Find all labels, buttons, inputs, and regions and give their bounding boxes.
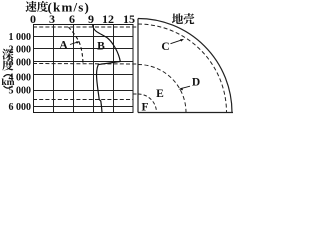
title char 速 (26, 1, 37, 12)
svg-text:A: A (59, 40, 68, 52)
svg-text:D: D (192, 77, 200, 89)
label char 地 (172, 13, 183, 24)
quarter circle left edge (137, 19, 139, 113)
dashed arc moho (138, 24, 227, 113)
curve B (P-wave, solid) (93, 24, 121, 113)
svg-text:9: 9 (88, 12, 94, 26)
label A arrow (70, 42, 78, 45)
chart frame (34, 25, 134, 113)
svg-text:F: F (141, 102, 148, 114)
dashed moho line (33, 26, 138, 28)
horizontal gridline 5000 (33, 90, 133, 92)
vertical gridline 6 (73, 25, 75, 113)
outer solid arc (surface) (138, 19, 232, 113)
label C arrow (171, 40, 183, 44)
dashed arc core-mantle D (138, 65, 186, 113)
y-axis paren close (4, 86, 13, 88)
svg-text:C: C (161, 41, 169, 53)
y-axis char 度 (2, 59, 13, 70)
svg-text:E: E (156, 88, 164, 100)
y-axis paren open (4, 75, 13, 77)
horizontal gridline 2000 (33, 48, 133, 50)
label D arrow (181, 86, 191, 89)
vertical gridline 3 (53, 25, 55, 113)
curve A (S-wave, dashed) (69, 27, 84, 64)
horizontal gridline 4000 (33, 74, 133, 76)
label char 壳 (184, 13, 195, 24)
vertical gridline 9 (93, 25, 95, 113)
quarter circle bottom edge (138, 112, 233, 114)
svg-text:0: 0 (30, 12, 36, 26)
svg-text:B: B (97, 41, 105, 53)
dashed core-mantle line (33, 63, 138, 66)
connector dash inner-core (134, 93, 140, 95)
svg-text:6 000: 6 000 (9, 102, 32, 113)
svg-text:6: 6 (69, 12, 75, 26)
horizontal gridline 1000 (33, 36, 133, 38)
horizontal gridline 6000 (33, 106, 133, 108)
y-axis char 深 (2, 49, 13, 60)
dashed inner-core line (33, 99, 133, 101)
vertical gridline 12 (113, 25, 115, 113)
title char 度 (37, 1, 48, 12)
svg-text:3: 3 (49, 12, 55, 26)
svg-text:12: 12 (102, 12, 114, 26)
svg-text:15: 15 (123, 12, 135, 26)
dashed arc inner core F (138, 94, 157, 113)
horizontal gridline 3000 (33, 61, 133, 63)
svg-text:1 000: 1 000 (9, 32, 32, 43)
